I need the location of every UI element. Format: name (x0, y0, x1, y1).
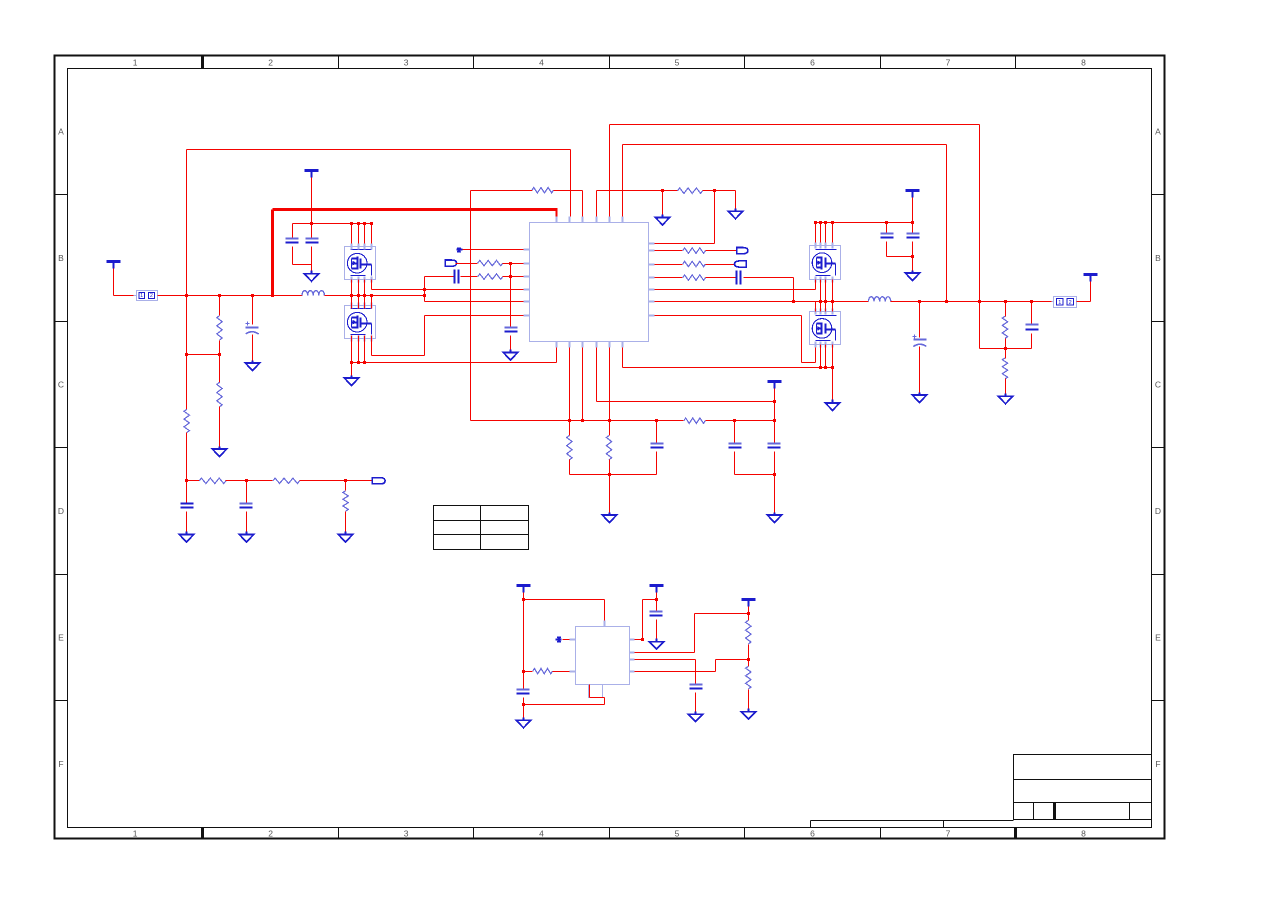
svg-text:4: 4 (539, 58, 544, 68)
svg-text:D: D (1155, 506, 1161, 516)
svg-text:E: E (58, 633, 64, 643)
svg-text:2: 2 (268, 829, 273, 839)
svg-text:C: C (58, 380, 64, 390)
svg-text:8: 8 (1081, 829, 1086, 839)
svg-text:1: 1 (140, 293, 143, 299)
svg-text:7: 7 (946, 58, 951, 68)
svg-text:6: 6 (810, 58, 815, 68)
svg-text:1: 1 (133, 829, 138, 839)
svg-text:5: 5 (675, 829, 680, 839)
svg-text:1: 1 (1058, 300, 1061, 306)
svg-text:D: D (58, 506, 64, 516)
svg-text:2: 2 (268, 58, 273, 68)
svg-text:6: 6 (810, 829, 815, 839)
svg-text:F: F (58, 759, 63, 769)
svg-text:B: B (58, 253, 64, 263)
svg-text:5: 5 (675, 58, 680, 68)
svg-text:8: 8 (1081, 58, 1086, 68)
svg-text:3: 3 (404, 829, 409, 839)
svg-text:2: 2 (150, 293, 153, 299)
svg-text:E: E (1155, 633, 1161, 643)
svg-text:A: A (1155, 127, 1161, 137)
svg-text:F: F (1155, 759, 1160, 769)
svg-text:4: 4 (539, 829, 544, 839)
svg-text:B: B (1155, 253, 1161, 263)
svg-text:3: 3 (404, 58, 409, 68)
svg-text:7: 7 (946, 829, 951, 839)
svg-text:A: A (58, 127, 64, 137)
svg-text:C: C (1155, 380, 1161, 390)
svg-text:2: 2 (1069, 300, 1072, 306)
svg-text:1: 1 (133, 58, 138, 68)
